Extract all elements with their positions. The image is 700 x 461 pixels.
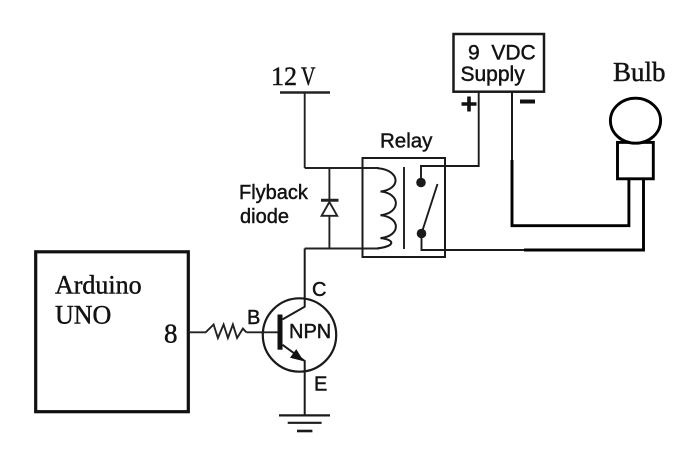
wire pin 8 to resistor: [188, 331, 206, 333]
relay switch blade: [422, 184, 438, 234]
bulb globe circle: [610, 98, 660, 143]
wire 9VDC minus thick segment to bulb left pin: [512, 160, 629, 226]
wire 12V down to node: [304, 93, 306, 169]
transistor emitter lead: [283, 345, 305, 415]
svg-text:Flyback: Flyback: [239, 182, 309, 204]
bulb base rectangle: [618, 142, 654, 178]
resistor R1: [206, 325, 247, 339]
wire to bulb right pin (thick): [524, 179, 644, 250]
ground symbol: [279, 415, 330, 431]
wire resistor to base: [246, 331, 277, 333]
svg-text:B: B: [247, 307, 260, 329]
svg-text:8: 8: [164, 319, 178, 349]
relay K1 box: [363, 158, 446, 257]
svg-text:12: 12: [271, 62, 297, 91]
svg-text:UNO: UNO: [55, 301, 111, 330]
relay switch bottom contact dot: [417, 229, 427, 239]
relay coil: [378, 168, 396, 248]
relay switch top contact dot: [416, 178, 426, 188]
diode D1 flyback: [321, 168, 339, 249]
wire collector node to relay coil bottom: [305, 248, 379, 250]
9 VDC supply box: [454, 34, 545, 92]
transistor collector lead: [283, 249, 305, 320]
svg-text:C: C: [312, 279, 326, 301]
svg-text:diode: diode: [240, 206, 289, 228]
transistor Q1 base bar: [278, 315, 283, 350]
plus terminal sign: [462, 97, 477, 112]
wire 9VDC minus to bulb left pin: [511, 92, 513, 161]
wire node to relay coil top: [305, 167, 379, 169]
power rail bar 12V: [280, 91, 330, 93]
relay separator line: [403, 167, 405, 249]
transistor Q1 circle: [263, 298, 336, 371]
minus terminal sign: [520, 100, 535, 104]
svg-text:NPN: NPN: [289, 321, 331, 343]
transistor emitter arrowhead: [291, 350, 303, 360]
svg-text:Relay: Relay: [380, 130, 433, 153]
wire relay bottom contact out (thin): [422, 234, 525, 251]
Arduino UNO box: [36, 252, 189, 412]
svg-text:E: E: [314, 374, 327, 396]
svg-text:Arduino: Arduino: [55, 271, 142, 300]
svg-text:V: V: [301, 62, 316, 91]
svg-text:9 VDC: 9 VDC: [468, 42, 536, 65]
svg-text:Supply: Supply: [461, 63, 526, 86]
wire relay top contact to 9VDC plus: [421, 92, 479, 183]
svg-text:Bulb: Bulb: [613, 57, 666, 87]
wire base inside circle: [261, 331, 278, 333]
